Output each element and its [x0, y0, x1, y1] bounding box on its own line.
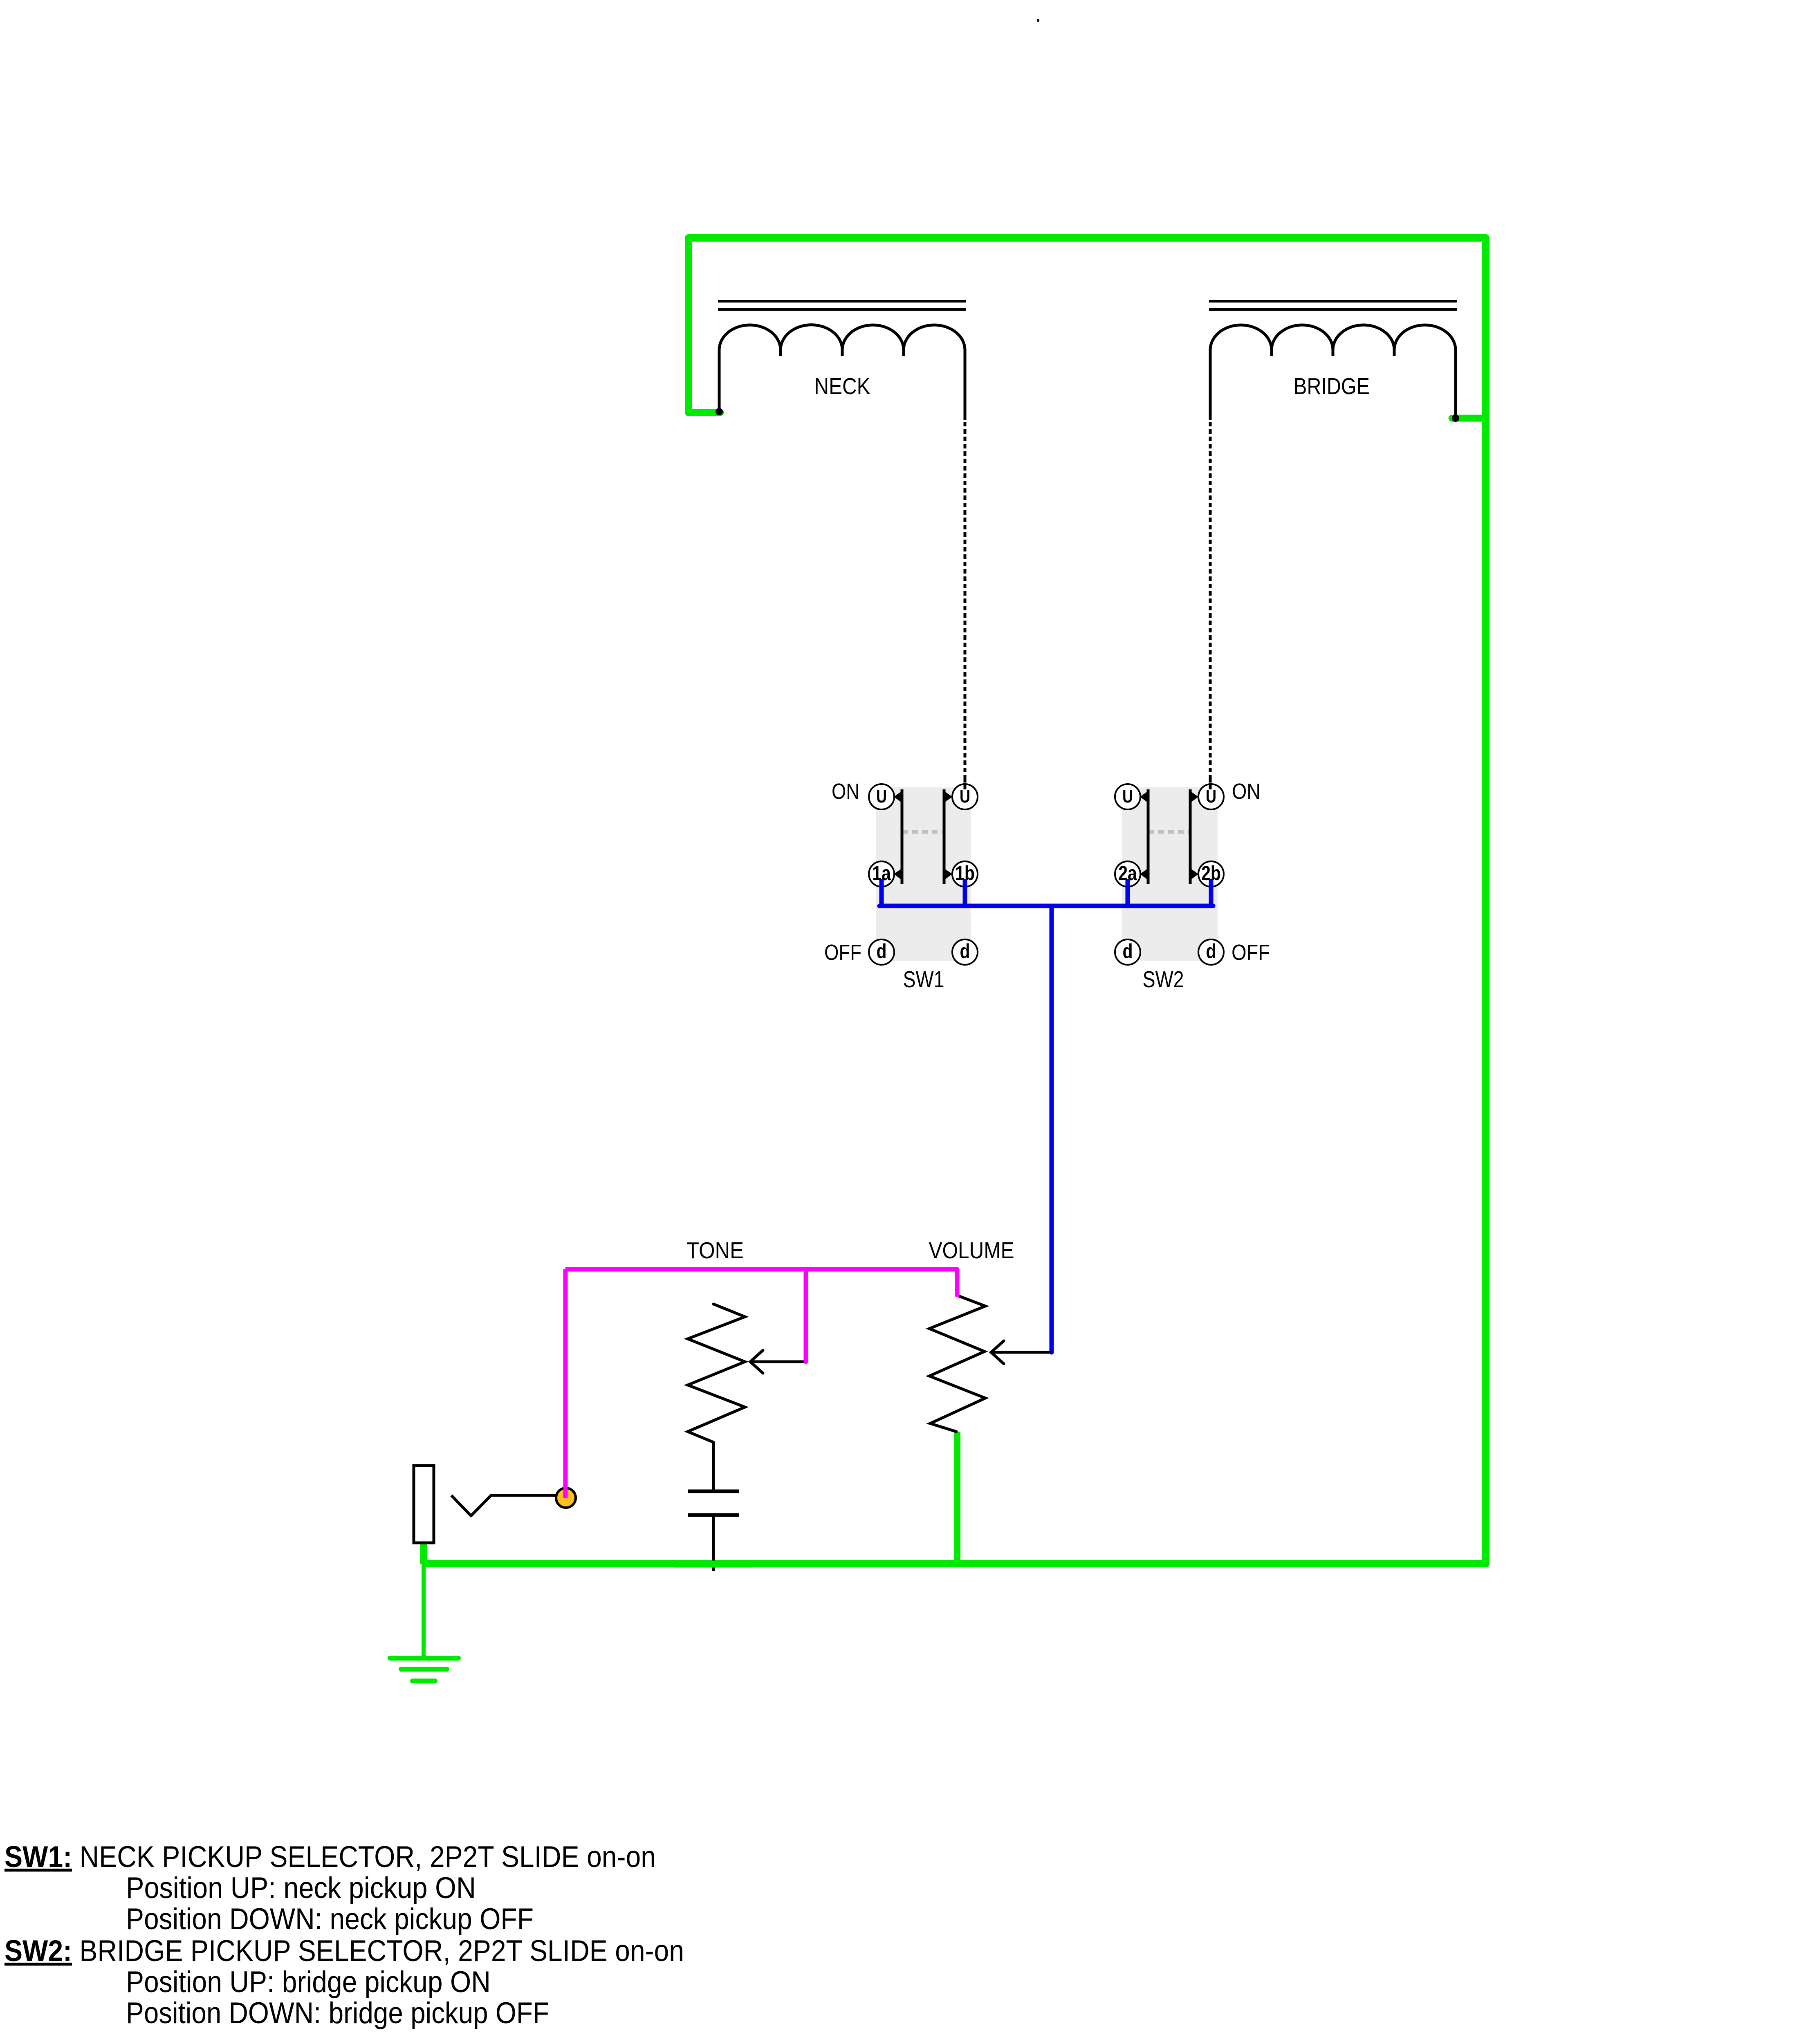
- wire green ground loop: [424, 238, 1486, 1564]
- SW2 pin labels u / 2a / 2b / d: [1118, 787, 1221, 963]
- potentiometer TONE: [686, 1237, 805, 1442]
- switch SW1: [824, 779, 978, 993]
- output jack J1: [414, 1466, 576, 1543]
- wire green jack sleeve to ground: [420, 1542, 427, 1658]
- svg-text:SW2: BRIDGE PICKUP SELECTOR, 2: SW2: BRIDGE PICKUP SELECTOR, 2P2T SLIDE …: [4, 1934, 684, 1968]
- svg-text:SW2: SW2: [1143, 966, 1184, 993]
- svg-text:Position UP: neck pickup ON: Position UP: neck pickup ON: [126, 1871, 476, 1905]
- artifact dot: [1037, 19, 1039, 22]
- wire bridge pickup hot dashes into SW2 u terminal: [1209, 778, 1212, 791]
- potentiometer VOLUME: [929, 1237, 1052, 1432]
- wire neck pickup hot (dashed): [964, 422, 967, 791]
- wire neck pickup hot dashes into SW1 u terminal: [964, 778, 967, 791]
- note SW1/SW2 description: [4, 1840, 684, 2030]
- svg-text:SW1: SW1: [903, 966, 944, 993]
- pickup NECK: [716, 301, 966, 420]
- svg-text:OFF: OFF: [824, 940, 861, 965]
- wire bridge pickup hot (dashed): [1209, 422, 1212, 791]
- svg-text:BRIDGE: BRIDGE: [1294, 373, 1370, 399]
- svg-text:U: U: [876, 787, 887, 807]
- svg-text:SW1: NECK PICKUP SELECTOR, 2P2: SW1: NECK PICKUP SELECTOR, 2P2T SLIDE on…: [4, 1840, 656, 1874]
- ground: [390, 1658, 458, 1681]
- pickup BRIDGE: [1209, 301, 1459, 422]
- svg-text:U: U: [960, 787, 970, 807]
- wire magenta into jack tip: [563, 1269, 568, 1498]
- svg-text:d: d: [876, 940, 886, 963]
- svg-text:ON: ON: [832, 779, 859, 804]
- svg-text:d: d: [1206, 940, 1216, 963]
- capacitor C1: [688, 1442, 739, 1571]
- svg-text:Position UP: bridge pickup ON: Position UP: bridge pickup ON: [126, 1966, 491, 1999]
- svg-text:d: d: [960, 940, 970, 963]
- SW1 pin labels u / 1a / 1b / d: [872, 787, 975, 963]
- svg-text:d: d: [1122, 940, 1133, 963]
- svg-text:ON: ON: [1232, 779, 1261, 804]
- svg-text:U: U: [1122, 787, 1133, 807]
- wire green bridge ground stub: [1452, 415, 1486, 422]
- wire magenta tone/volume/jack hot: [565, 1269, 957, 1362]
- switch SW2: [1115, 779, 1270, 993]
- svg-text:Position DOWN: neck pickup OFF: Position DOWN: neck pickup OFF: [126, 1903, 534, 1936]
- svg-text:NECK: NECK: [814, 373, 870, 399]
- svg-text:OFF: OFF: [1232, 940, 1270, 965]
- wire blue bus to volume wiper: [1050, 906, 1054, 1352]
- wire green volume cold lug to ground bus: [954, 1432, 960, 1564]
- wire blue switch outputs bus: [879, 879, 1213, 906]
- svg-text:TONE: TONE: [686, 1237, 744, 1264]
- svg-text:Position DOWN: bridge pickup O: Position DOWN: bridge pickup OFF: [126, 1997, 549, 2030]
- svg-text:VOLUME: VOLUME: [929, 1237, 1014, 1264]
- wire green ground bus redraw over capacitor: [675, 1561, 752, 1568]
- svg-text:U: U: [1206, 787, 1216, 807]
